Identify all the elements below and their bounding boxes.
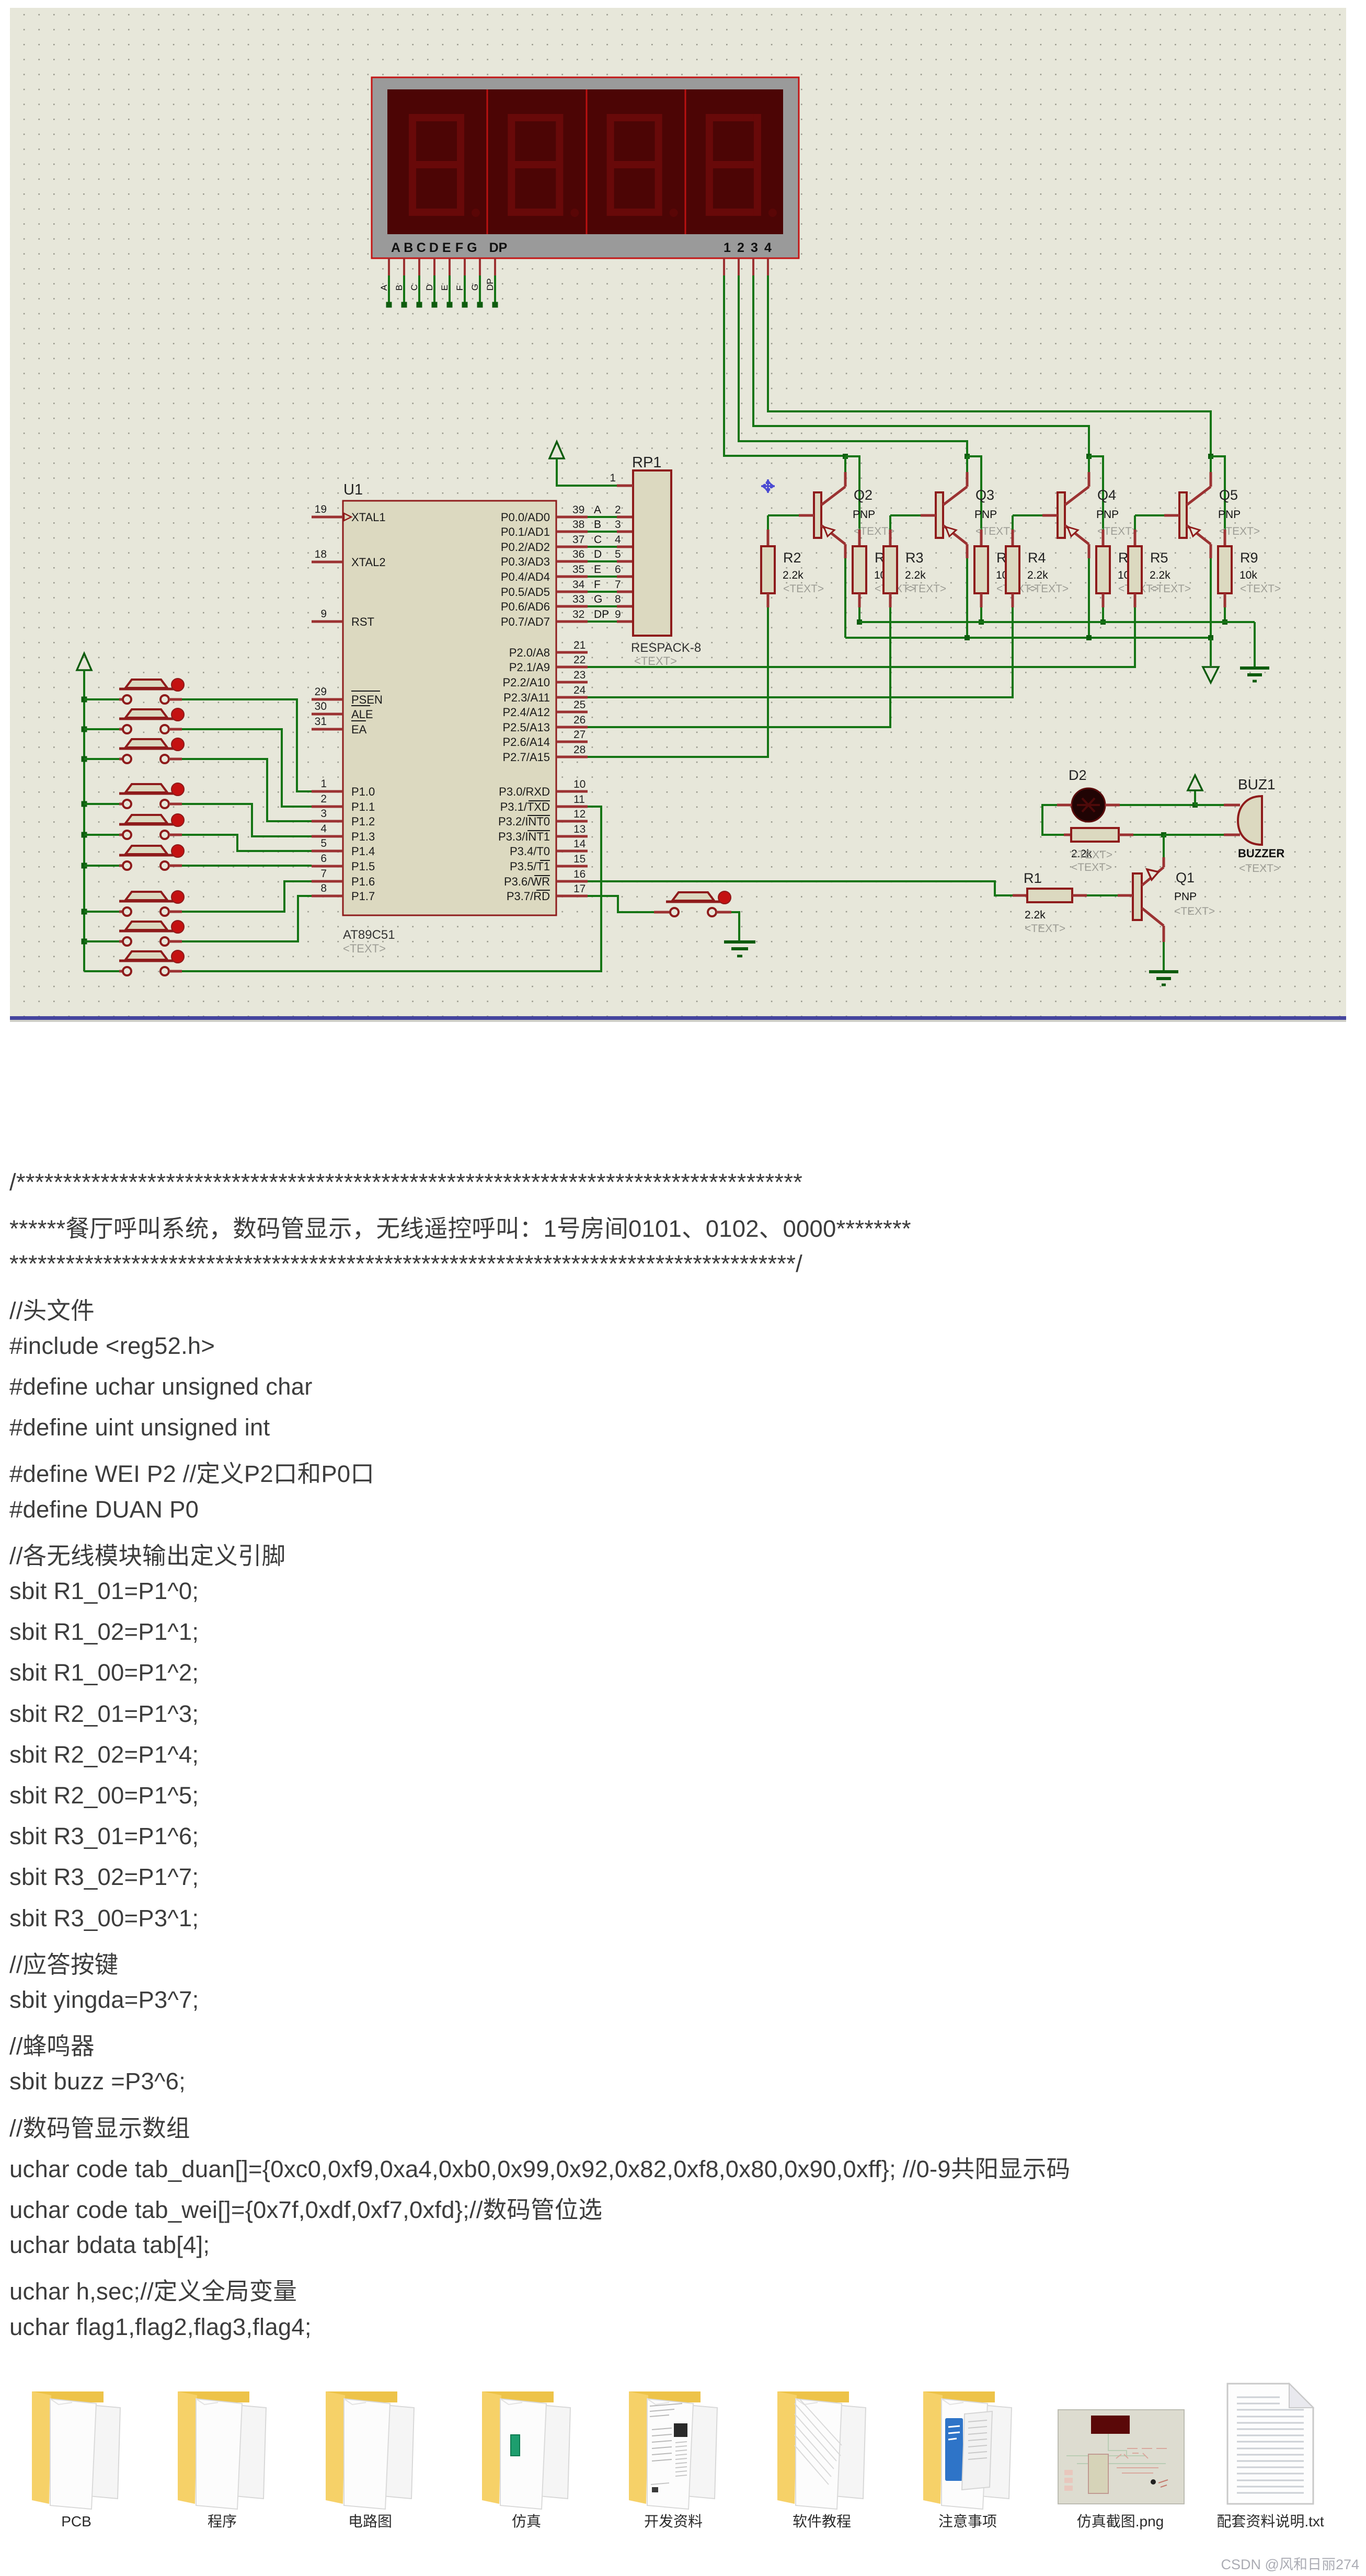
push button SW1 on row 1: [82, 678, 185, 704]
svg-text:PCB: PCB: [61, 2513, 91, 2529]
wire: Q4 emitter to digit line: [1088, 456, 1090, 472]
folder icon 注意事项: [923, 2391, 1012, 2509]
pin 28 P2.7/A15 of U1: [502, 744, 588, 764]
pin 27 P2.6/A14 of U1: [502, 729, 588, 749]
label 软件教程: [793, 2513, 851, 2529]
svg-text:P2.0/A8: P2.0/A8: [509, 646, 550, 659]
label 电路图: [348, 2513, 392, 2529]
svg-text:2: 2: [320, 793, 327, 805]
svg-text:P1.5: P1.5: [351, 860, 375, 873]
svg-text:P1.7: P1.7: [351, 890, 375, 903]
svg-text:G: G: [594, 593, 602, 605]
svg-text:5: 5: [615, 548, 621, 560]
svg-text:P2.6/A14: P2.6/A14: [502, 735, 550, 749]
push button SW9 on row 9: [84, 950, 184, 975]
svg-text:E: E: [440, 285, 450, 291]
svg-text:注意事项: 注意事项: [938, 2513, 997, 2529]
svg-text:P0.6/AD6: P0.6/AD6: [501, 600, 550, 613]
resistor R4 2.2k base resistor: [1006, 515, 1069, 607]
pin 24 P2.3/A11 of U1: [503, 684, 588, 704]
pin 7 P1.6 of U1: [312, 868, 375, 888]
svg-text:A: A: [594, 504, 601, 516]
wire: display segment pin A with net terminal: [379, 258, 392, 308]
wire: Q3 emitter to digit line: [966, 456, 968, 472]
svg-text:<TEXT>: <TEXT>: [343, 942, 386, 955]
pin 18 XTAL2 of U1: [312, 548, 386, 569]
pin 8 P1.7 of U1: [312, 882, 375, 903]
wire: P3.6 buzz line to R1: [588, 881, 1013, 895]
pin 2 P1.1 of U1: [312, 793, 375, 813]
transistor Q1 PNP: [1133, 857, 1215, 942]
svg-text:1: 1: [320, 778, 327, 790]
svg-text:9: 9: [615, 608, 621, 620]
svg-text:F: F: [455, 240, 463, 255]
wire: base of Q4: [1013, 514, 1058, 516]
svg-text:B: B: [394, 285, 404, 291]
wire: button 9 to mcu: [182, 807, 601, 971]
push button SW3 on row 3: [82, 738, 185, 763]
svg-text:3: 3: [751, 240, 758, 255]
label 注意事项: [938, 2513, 997, 2529]
svg-text:9: 9: [320, 608, 327, 620]
svg-text:PSEN: PSEN: [351, 693, 383, 706]
svg-text:2.2k: 2.2k: [1027, 569, 1048, 581]
pin 12 P3.2/INT0 of U1: [498, 808, 588, 828]
pin 14 P3.4/T0 of U1: [510, 838, 588, 858]
svg-text:PNP: PNP: [853, 509, 875, 521]
led D2: [1057, 767, 1120, 822]
svg-text:<TEXT>: <TEXT>: [1240, 583, 1281, 595]
svg-text:电路图: 电路图: [348, 2513, 392, 2529]
svg-text:19: 19: [315, 503, 327, 515]
svg-text:ALE: ALE: [351, 708, 373, 721]
push button yingda (answer key): [654, 891, 731, 916]
svg-text:BUZZER: BUZZER: [1238, 847, 1284, 860]
resistor R9 10k pull resistor: [1218, 530, 1281, 607]
transistor Q3 PNP: [936, 472, 1016, 558]
pin 34 P0.5/AD5 of U1 wire to RP1 pin 7 net F: [501, 579, 634, 599]
push button SW5 on row 5: [82, 814, 185, 839]
C source code listing: [9, 1169, 802, 1196]
svg-text:PNP: PNP: [1174, 891, 1197, 903]
svg-text:34: 34: [572, 579, 585, 591]
resistor R5 2.2k base resistor: [1128, 515, 1191, 607]
svg-text:A: A: [391, 240, 400, 255]
pin 21 P2.0/A8 of U1: [509, 639, 588, 659]
svg-text:15: 15: [573, 853, 586, 865]
mcu U1 AT89C51 body: [343, 481, 556, 955]
label 开发资料: [644, 2513, 703, 2529]
ground for answer button: [724, 912, 755, 956]
svg-text:2.2k: 2.2k: [1025, 909, 1046, 921]
pin 4 P1.3 of U1: [312, 823, 375, 843]
pin 26 P2.5/A13 of U1: [502, 714, 588, 734]
svg-text:P2.7/A15: P2.7/A15: [502, 751, 550, 764]
wire: button 4 to mcu: [182, 804, 312, 836]
svg-text:RST: RST: [351, 615, 374, 628]
svg-text:P2.3/A11: P2.3/A11: [503, 691, 550, 704]
svg-text:3: 3: [320, 808, 327, 820]
svg-text:G: G: [470, 284, 480, 291]
svg-text:P1.0: P1.0: [351, 785, 375, 798]
pin 5 P1.4 of U1: [312, 837, 375, 858]
svg-text:D: D: [424, 284, 434, 291]
svg-text:D: D: [594, 548, 602, 560]
wire: R4 bottom to P2 line: [588, 607, 1013, 697]
svg-text:5: 5: [320, 837, 327, 849]
pin 13 P3.3/INT1 of U1: [498, 823, 588, 843]
svg-text:PNP: PNP: [1096, 509, 1119, 521]
folder icon 程序: [178, 2391, 266, 2509]
svg-text:P1.2: P1.2: [351, 815, 375, 828]
pin 39 P0.0/AD0 of U1 wire to RP1 pin 2 net A: [501, 504, 634, 524]
svg-text:35: 35: [572, 563, 584, 576]
wire: button 2 to mcu: [182, 729, 312, 807]
wire: Q4 collector to rail: [1088, 558, 1090, 638]
folder icon 仿真: [482, 2391, 570, 2509]
transistor Q4 PNP: [1058, 472, 1138, 558]
svg-text:36: 36: [572, 548, 584, 560]
resistor R7 10k pull resistor: [974, 530, 1037, 607]
svg-text:<TEXT>: <TEXT>: [1239, 862, 1280, 875]
svg-text:14: 14: [573, 838, 586, 850]
folder icon 软件教程: [777, 2391, 866, 2509]
svg-text:6: 6: [320, 853, 327, 865]
wire: base of Q5: [1135, 514, 1179, 516]
svg-text:P3.7/RD: P3.7/RD: [507, 890, 550, 903]
label 配套资料说明.txt: [1216, 2513, 1324, 2529]
wire: Q2 collector to rail: [844, 558, 846, 638]
svg-text:R5: R5: [1150, 550, 1168, 566]
svg-text:F: F: [594, 579, 601, 591]
svg-text:1: 1: [610, 472, 616, 484]
svg-text:39: 39: [572, 504, 584, 516]
wire: Q1 emitter up to junction: [1163, 835, 1165, 857]
svg-text:26: 26: [573, 714, 586, 726]
svg-text:27: 27: [573, 729, 586, 741]
svg-text:C: C: [409, 284, 419, 291]
wire: R9 bottom to rail: [1222, 607, 1227, 625]
attachment icons row: [0, 2367, 1366, 2576]
wire: R2 bottom to P2 line: [588, 607, 768, 757]
pin 30 ALE of U1: [312, 700, 373, 721]
svg-text:P0.7/AD7: P0.7/AD7: [501, 615, 550, 628]
wire: digit 4 select line to stage 3: [768, 258, 1225, 530]
svg-text:17: 17: [573, 883, 586, 895]
transistor Q5 PNP: [1179, 472, 1260, 558]
svg-text:10: 10: [573, 778, 586, 790]
svg-text:RESPACK-8: RESPACK-8: [631, 641, 701, 655]
svg-text:P3.6/WR: P3.6/WR: [504, 875, 550, 888]
svg-text:30: 30: [315, 700, 327, 712]
svg-text:PNP: PNP: [1218, 509, 1241, 521]
svg-text:Q3: Q3: [975, 487, 994, 503]
ground arrow terminal: [1203, 667, 1219, 683]
push button SW4 on row 4: [82, 783, 185, 808]
svg-text:<TEXT>: <TEXT>: [1071, 861, 1112, 873]
wire: Q2 emitter to digit line: [844, 456, 846, 472]
pin 23 P2.2/A10 of U1: [502, 669, 588, 689]
svg-text:2: 2: [615, 504, 621, 516]
wire: R3 bottom to P2 line: [588, 607, 890, 727]
svg-text:P1.6: P1.6: [351, 875, 375, 888]
svg-text:DP: DP: [489, 240, 508, 255]
svg-text:23: 23: [573, 669, 586, 681]
svg-text:P1.4: P1.4: [351, 845, 375, 858]
wire: led loop left: [1042, 805, 1064, 835]
label 仿真截图.png: [1077, 2513, 1164, 2529]
svg-text:仿真截图.png: 仿真截图.png: [1077, 2513, 1164, 2529]
svg-text:<TEXT>: <TEXT>: [1028, 583, 1069, 595]
svg-text:P2.2/A10: P2.2/A10: [502, 676, 550, 689]
svg-text:<TEXT>: <TEXT>: [1025, 923, 1065, 935]
resistor R6 10k pull resistor: [853, 530, 915, 607]
power arrow above RP1 and wire to RP1 pin 1: [549, 442, 633, 486]
svg-text:P3.3/INT1: P3.3/INT1: [498, 830, 550, 843]
wire: digit 1 select line to stage 0: [724, 258, 859, 530]
label 仿真: [512, 2513, 541, 2529]
wire: R7 bottom to rail: [979, 607, 984, 625]
svg-text:G: G: [467, 240, 477, 255]
svg-text:8: 8: [320, 882, 327, 894]
svg-text:29: 29: [315, 686, 327, 698]
wire: R5 bottom to P2 line: [588, 607, 1135, 667]
push button SW2 on row 2: [82, 708, 185, 733]
svg-text:<TEXT>: <TEXT>: [1150, 583, 1191, 595]
wire: button 3 to mcu: [182, 759, 312, 821]
wire: R6 bottom to rail: [857, 607, 862, 625]
wire: Q5 collector to rail: [1210, 558, 1212, 638]
svg-text:P3.4/T0: P3.4/T0: [510, 845, 550, 858]
svg-text:F: F: [455, 285, 465, 291]
svg-text:1: 1: [724, 240, 731, 255]
svg-text:<TEXT>: <TEXT>: [1174, 905, 1215, 917]
wire: display segment pin F with net terminal: [455, 258, 468, 308]
svg-text:3: 3: [615, 519, 621, 531]
pin 16 P3.6/WR of U1: [504, 868, 588, 888]
pin 1 P1.0 of U1: [312, 778, 375, 798]
pin 17 P3.7/RD of U1: [507, 883, 588, 903]
resistor R2 2.2k base resistor: [761, 515, 824, 607]
svg-text:2.2k: 2.2k: [905, 569, 926, 581]
svg-text:13: 13: [573, 823, 586, 835]
file icon 仿真截图.png thumbnail: [1058, 2410, 1184, 2504]
svg-text:P3.1/TXD: P3.1/TXD: [500, 800, 550, 813]
wire: digit 2 select line to stage 1: [739, 258, 981, 530]
folder icon PCB: [32, 2391, 120, 2509]
power arrow for keypad rail: [77, 653, 91, 971]
wire: display segment pin B with net terminal: [394, 258, 407, 308]
svg-text:AT89C51: AT89C51: [343, 928, 395, 942]
pin 36 P0.3/AD3 of U1 wire to RP1 pin 5 net D: [501, 548, 634, 568]
svg-text:<TEXT>: <TEXT>: [634, 654, 677, 668]
svg-text:R1: R1: [1024, 870, 1042, 886]
svg-text:P0.1/AD1: P0.1/AD1: [501, 525, 550, 538]
svg-text:XTAL1: XTAL1: [351, 511, 386, 524]
svg-text:P3.0/RXD: P3.0/RXD: [499, 785, 550, 798]
svg-text:16: 16: [573, 868, 586, 880]
wire: base of Q3: [890, 514, 936, 516]
wire: digit 3 select line to stage 2: [753, 258, 1103, 530]
wire: button 8 to mcu: [182, 896, 312, 941]
svg-text:P0.2/AD2: P0.2/AD2: [501, 540, 550, 554]
wire: R1 to Q1 base: [1087, 894, 1133, 896]
folder icon 电路图: [326, 2391, 414, 2509]
pin 31 EA of U1: [312, 716, 367, 736]
svg-text:P2.1/A9: P2.1/A9: [509, 661, 550, 674]
svg-text:28: 28: [573, 744, 586, 756]
svg-text:R3: R3: [905, 550, 924, 566]
svg-text:P3.2/INT0: P3.2/INT0: [498, 815, 550, 828]
buzzer BUZ1: [1224, 776, 1284, 875]
svg-text:22: 22: [573, 654, 586, 666]
svg-text:Q4: Q4: [1097, 487, 1116, 503]
display 4-digit 7-segment module: [372, 77, 799, 258]
pin 35 P0.4/AD4 of U1 wire to RP1 pin 6 net E: [501, 563, 634, 583]
svg-text:<TEXT>: <TEXT>: [1072, 849, 1112, 861]
wire: display segment pin C with net terminal: [409, 258, 422, 308]
resistor pack RP1 RESPACK-8: [631, 454, 701, 668]
svg-text:31: 31: [315, 716, 327, 728]
push button SW6 on row 6: [82, 845, 185, 870]
svg-text:E: E: [442, 240, 451, 255]
svg-text:P0.4/AD4: P0.4/AD4: [501, 570, 550, 583]
origin marker (blue cross): [761, 479, 775, 493]
svg-text:7: 7: [320, 868, 327, 880]
watermark CSDN: [1221, 2557, 1359, 2572]
pin 25 P2.4/A12 of U1: [502, 699, 588, 719]
svg-text:<TEXT>: <TEXT>: [783, 583, 824, 595]
svg-text:2: 2: [737, 240, 744, 255]
resistor R8 10k pull resistor: [1096, 530, 1159, 607]
svg-text:RP1: RP1: [632, 454, 661, 471]
wire: display segment pin G with net terminal: [470, 258, 483, 308]
svg-text:EA: EA: [351, 723, 367, 736]
svg-text:Q1: Q1: [1176, 870, 1195, 885]
wire: button 1 to mcu: [182, 699, 312, 791]
pin 38 P0.1/AD1 of U1 wire to RP1 pin 3 net B: [501, 519, 634, 538]
wire: display segment pin D with net terminal: [424, 258, 438, 308]
svg-text:4: 4: [615, 534, 621, 546]
svg-text:BUZ1: BUZ1: [1238, 776, 1276, 792]
svg-text:37: 37: [572, 534, 584, 546]
pin 19 XTAL1 of U1: [312, 503, 386, 524]
pin 29 PSEN of U1: [312, 686, 383, 706]
svg-text:18: 18: [315, 548, 327, 560]
svg-text:DP: DP: [594, 608, 609, 620]
wire: display segment pin DP with net terminal: [485, 258, 498, 308]
pin 22 P2.1/A9 of U1: [509, 654, 588, 674]
svg-text:R2: R2: [783, 550, 801, 566]
svg-text:P0.5/AD5: P0.5/AD5: [501, 585, 550, 599]
wire: display segment pin E with net terminal: [440, 258, 453, 308]
svg-text:10k: 10k: [1239, 569, 1257, 581]
svg-text:38: 38: [572, 519, 584, 531]
wire: R8 bottom to rail: [1100, 607, 1106, 625]
svg-text:P0.0/AD0: P0.0/AD0: [501, 511, 550, 524]
svg-text:Q2: Q2: [854, 487, 873, 503]
svg-text:4: 4: [320, 823, 327, 835]
svg-text:C: C: [417, 240, 426, 255]
overline marks for PSEN ALE EA: [351, 691, 380, 692]
svg-text:软件教程: 软件教程: [793, 2513, 851, 2529]
wire: Q3 collector to rail: [966, 558, 968, 638]
label PCB: [61, 2513, 91, 2529]
ground for Q1: [1149, 972, 1178, 985]
pin 33 P0.6/AD6 of U1 wire to RP1 pin 8 net G: [501, 593, 634, 613]
wire: blue bottom border bar: [10, 1016, 1346, 1022]
svg-text:11: 11: [573, 793, 585, 806]
resistor R3 2.2k base resistor: [883, 515, 946, 607]
svg-text:21: 21: [573, 639, 586, 651]
svg-text:A: A: [379, 284, 389, 291]
svg-text:P1.3: P1.3: [351, 830, 375, 843]
label 程序: [208, 2513, 237, 2529]
pin 37 P0.2/AD2 of U1 wire to RP1 pin 4 net C: [501, 534, 634, 554]
svg-text:P2.4/A12: P2.4/A12: [502, 706, 550, 719]
pin 15 P3.5/T1 of U1: [510, 853, 588, 873]
wire: Q1 collector to ground: [1163, 942, 1165, 971]
pin 3 P1.2 of U1: [312, 808, 375, 828]
svg-text:P1.1: P1.1: [351, 800, 375, 813]
svg-text:C: C: [594, 534, 602, 546]
pin 6 P1.5 of U1: [312, 853, 375, 873]
pin 32 P0.7/AD7 of U1 wire to RP1 pin 9 net DP: [501, 608, 634, 628]
svg-text:XTAL2: XTAL2: [351, 556, 386, 569]
ground symbol right: [1240, 668, 1269, 681]
svg-text:开发资料: 开发资料: [644, 2513, 703, 2529]
resistor R10 2.2k led resistor: [1064, 828, 1133, 873]
svg-text:25: 25: [573, 699, 586, 711]
wire: resistor row to buzzer bottom: [1133, 832, 1224, 837]
svg-text:配套资料说明.txt: 配套资料说明.txt: [1216, 2513, 1324, 2529]
svg-text:程序: 程序: [208, 2513, 237, 2529]
svg-text:32: 32: [572, 608, 584, 620]
schematic: Proteus simulation screenshot: [0, 0, 1366, 1025]
wire: button 7 to mcu: [182, 881, 312, 912]
svg-text:8: 8: [615, 593, 621, 605]
push button SW7 on row 7: [82, 891, 185, 916]
svg-text:U1: U1: [343, 481, 363, 498]
svg-text:E: E: [594, 563, 601, 576]
svg-text:CSDN @风和日丽274: CSDN @风和日丽274: [1221, 2557, 1359, 2572]
svg-text:P0.3/AD3: P0.3/AD3: [501, 555, 550, 568]
svg-text:DP: DP: [485, 278, 495, 291]
wire: led row to buzzer top with power arrow: [1120, 775, 1224, 808]
svg-text:33: 33: [572, 593, 584, 605]
svg-text:2.2k: 2.2k: [783, 569, 803, 581]
push button SW8 on row 8: [82, 921, 185, 946]
svg-text:R4: R4: [1028, 550, 1046, 566]
wire: pull resistor ground rail: [859, 622, 1255, 667]
svg-text:PNP: PNP: [974, 509, 997, 521]
svg-text:D: D: [429, 240, 439, 255]
overline marks for TXD INT0 INT1 T1 WR RD: [529, 800, 550, 801]
svg-text:P3.5/T1: P3.5/T1: [510, 860, 550, 873]
folder icon 开发资料: [629, 2391, 717, 2509]
svg-text:R9: R9: [1240, 550, 1258, 566]
svg-text:4: 4: [764, 240, 772, 255]
transistor Q2 PNP: [814, 472, 894, 558]
svg-text:12: 12: [573, 808, 586, 820]
svg-text:D2: D2: [1069, 767, 1087, 783]
svg-text:Q5: Q5: [1219, 487, 1238, 503]
svg-text:<TEXT>: <TEXT>: [905, 583, 946, 595]
pin 10 P3.0/RXD of U1: [499, 778, 588, 798]
svg-text:仿真: 仿真: [512, 2513, 541, 2529]
wire: Q5 emitter to digit line: [1210, 456, 1212, 472]
wire: button 6 to mcu: [182, 865, 312, 867]
